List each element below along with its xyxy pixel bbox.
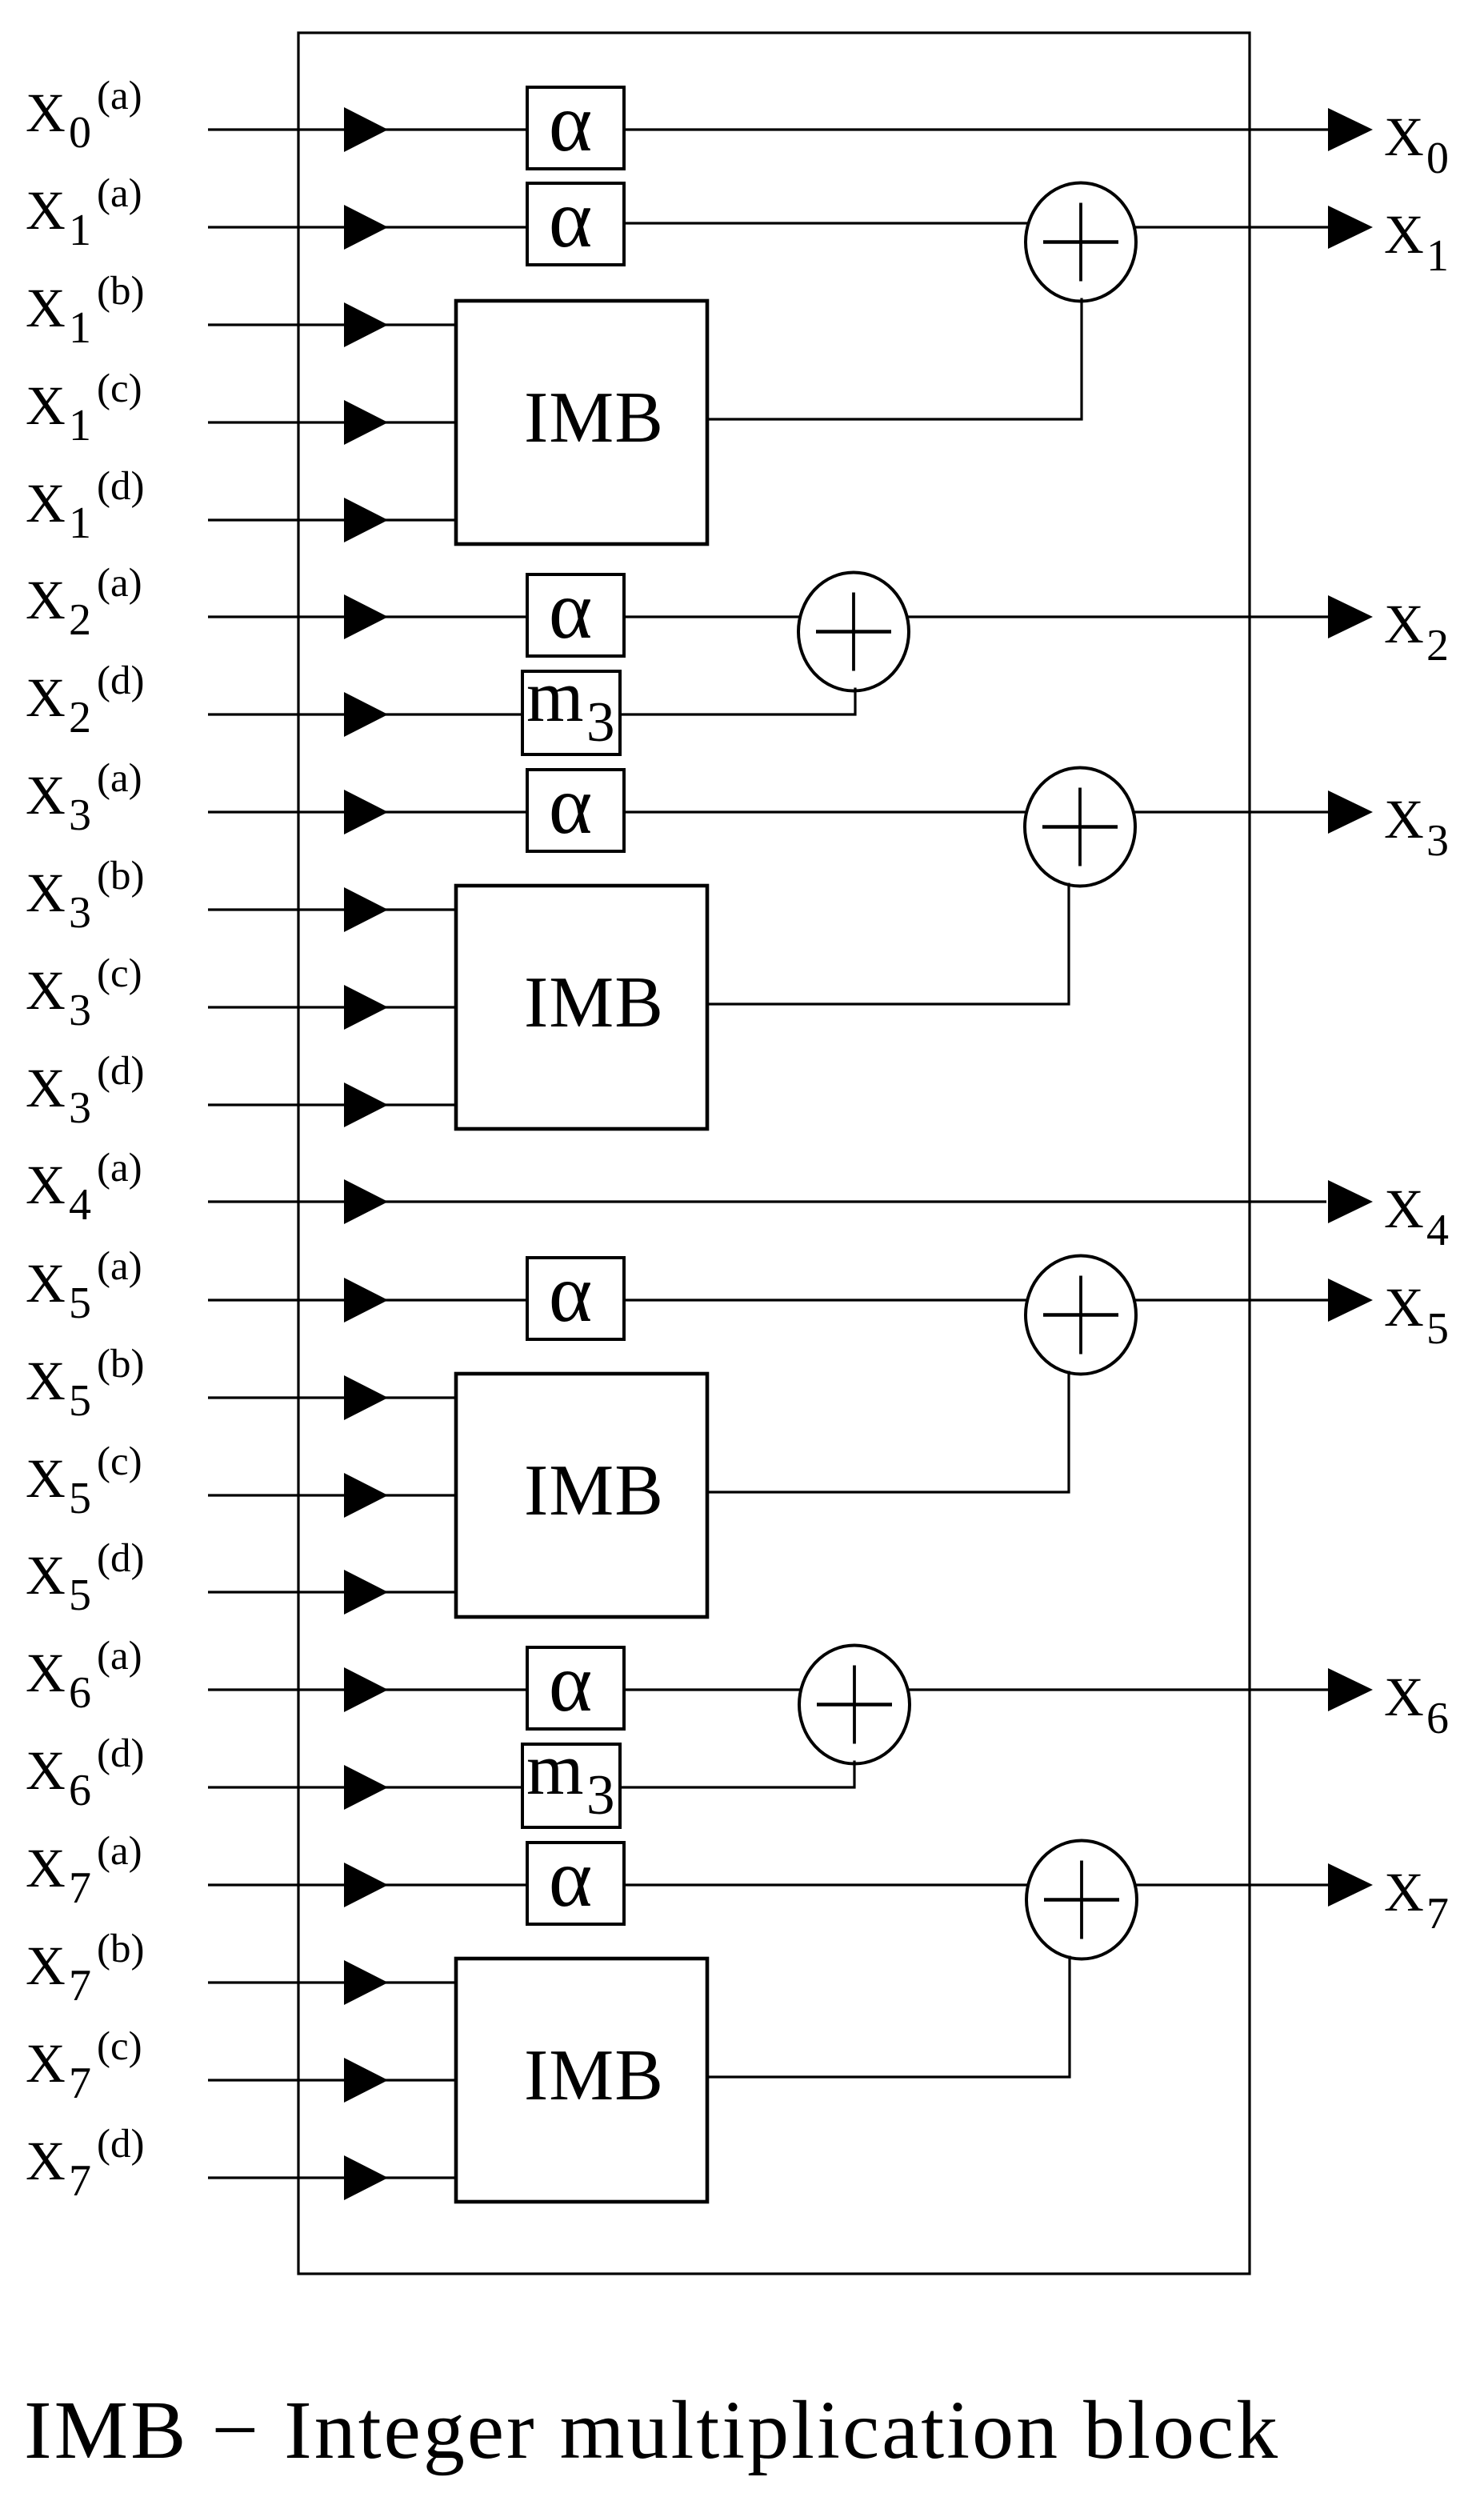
svg-text:(a): (a)	[97, 756, 142, 801]
svg-text:X: X	[26, 1253, 66, 1314]
svg-text:X: X	[1384, 594, 1424, 654]
svg-text:4: 4	[1426, 1206, 1449, 1255]
svg-text:6: 6	[69, 1668, 91, 1718]
arrowhead X1(c) input	[344, 400, 388, 445]
svg-text:(a): (a)	[97, 74, 142, 118]
output arrowhead X0	[1328, 108, 1373, 151]
svg-text:α: α	[549, 77, 593, 169]
svg-text:X: X	[26, 570, 66, 630]
arrowhead X2(d) input	[344, 692, 388, 737]
svg-text:X: X	[26, 375, 66, 436]
svg-text:X: X	[26, 278, 66, 338]
wire X7(a) input	[208, 1883, 529, 1886]
label X5^(c)	[26, 1439, 142, 1523]
svg-text:(a): (a)	[97, 1634, 142, 1679]
svg-text:α: α	[549, 173, 593, 265]
svg-text:X: X	[26, 1545, 66, 1606]
svg-text:(a): (a)	[97, 1244, 142, 1289]
svg-text:X: X	[26, 82, 66, 143]
wire X2(d) input	[208, 713, 524, 715]
svg-text:1: 1	[1426, 231, 1449, 281]
wire IMB4 output to adder X7	[707, 1956, 1070, 2078]
IMB block (center y=2600)	[456, 1959, 707, 2202]
label X5^(a)	[26, 1244, 142, 1328]
output arrowhead X1	[1328, 206, 1373, 249]
svg-text:X: X	[26, 1935, 66, 1996]
output arrowhead X3	[1328, 790, 1373, 834]
svg-text:(b): (b)	[97, 854, 144, 898]
wire X1(c) input	[208, 421, 458, 423]
svg-text:X: X	[26, 862, 66, 923]
wire m3 output to adder X2	[620, 688, 855, 715]
svg-text:5: 5	[69, 1376, 91, 1426]
svg-text:6: 6	[1426, 1694, 1449, 1743]
multiplier alpha (row y=284)	[527, 173, 624, 265]
label X7^(a)	[26, 1829, 142, 1913]
adder (row y=2112)	[799, 1646, 910, 1764]
svg-text:(c): (c)	[97, 366, 142, 411]
svg-text:X: X	[1384, 1667, 1424, 1727]
arrowhead X5(a) input	[344, 1278, 388, 1323]
svg-text:1: 1	[69, 498, 91, 548]
svg-text:(b): (b)	[97, 269, 144, 314]
svg-text:1: 1	[69, 401, 91, 450]
arrowhead X5(d) input	[344, 1570, 388, 1615]
arrowhead X7(c) input	[344, 2058, 388, 2103]
svg-text:(c): (c)	[97, 951, 142, 996]
svg-text:X: X	[26, 1740, 66, 1801]
arrowhead X5(c) input	[344, 1473, 388, 1518]
svg-text:X: X	[26, 765, 66, 826]
svg-text:X: X	[1384, 106, 1424, 167]
wire X5(a) input	[208, 1299, 529, 1301]
wire alpha X0 to output	[624, 128, 1330, 130]
output arrowhead X7	[1328, 1863, 1373, 1907]
wire adder to output (row y=2112)	[907, 1688, 1330, 1691]
svg-text:(a): (a)	[97, 1829, 142, 1874]
arrowhead X6(a) input	[344, 1667, 388, 1712]
multiplier alpha (row y=1625)	[527, 1247, 624, 1339]
svg-text:X: X	[26, 667, 66, 728]
wire alpha to adder (row y=2356)	[624, 1883, 1029, 1886]
wire adder to output (row y=771)	[906, 615, 1330, 618]
adder (row y=1625)	[1026, 1256, 1136, 1375]
svg-text:(d): (d)	[97, 2122, 144, 2167]
svg-text:X: X	[26, 1643, 66, 1703]
svg-text:IMB: IMB	[524, 962, 664, 1042]
arrowhead X1(d) input	[344, 498, 388, 542]
label X4^(a)	[26, 1146, 142, 1230]
wire m3 output to adder X6	[620, 1761, 854, 1788]
svg-text:3: 3	[586, 691, 615, 754]
svg-text:0: 0	[69, 108, 91, 158]
svg-text:3: 3	[69, 1083, 91, 1133]
IMB block (center y=528)	[456, 301, 707, 544]
svg-text:1: 1	[69, 206, 91, 255]
svg-text:3: 3	[69, 888, 91, 938]
svg-text:7: 7	[69, 1863, 91, 1913]
multiplier alpha (row y=2112)	[527, 1637, 624, 1729]
adder (row y=1015)	[1025, 768, 1135, 886]
label X1^(a)	[26, 171, 142, 255]
svg-text:X: X	[26, 180, 66, 241]
svg-text:X: X	[1384, 1862, 1424, 1923]
wire alpha to adder (row y=771)	[624, 615, 801, 618]
svg-text:2: 2	[69, 693, 91, 742]
svg-text:(d): (d)	[97, 1536, 144, 1581]
output label X3	[1384, 789, 1449, 866]
svg-text:7: 7	[69, 1961, 91, 2011]
svg-text:4: 4	[69, 1180, 91, 1230]
arrowhead X5(b) input	[344, 1375, 388, 1420]
arrowhead X3(b) input	[344, 887, 388, 932]
wire adder to output (row y=1625)	[1134, 1299, 1330, 1301]
output label X1	[1384, 204, 1449, 281]
svg-text:m: m	[526, 1728, 584, 1810]
wire X3(b) input	[208, 908, 458, 910]
arrowhead X7(a) input	[344, 1863, 388, 1907]
svg-text:α: α	[549, 759, 593, 851]
label X0^(a)	[26, 74, 142, 158]
svg-text:2: 2	[69, 595, 91, 645]
svg-text:α: α	[549, 1247, 593, 1339]
svg-text:IMB: IMB	[524, 2035, 664, 2115]
output label X4	[1384, 1178, 1449, 1255]
label X7^(b)	[26, 1927, 144, 2011]
arrowhead X4(a) input	[344, 1179, 388, 1224]
wire adder to output (row y=284)	[1134, 226, 1330, 228]
wire IMB2 output to adder X3	[707, 883, 1069, 1005]
output label X7	[1384, 1862, 1449, 1939]
multiplier alpha (row y=2356)	[527, 1832, 624, 1924]
svg-text:(d): (d)	[97, 464, 144, 509]
label X7^(c)	[26, 2024, 142, 2108]
wire adder to output (row y=2356)	[1134, 1883, 1330, 1886]
wire X5(b) input	[208, 1396, 458, 1399]
wire X3(a) input	[208, 810, 529, 813]
output arrowhead X6	[1328, 1668, 1373, 1711]
wire X1(b) input	[208, 323, 458, 326]
svg-text:5: 5	[69, 1474, 91, 1523]
svg-text:3: 3	[69, 790, 91, 840]
svg-text:(a): (a)	[97, 171, 142, 216]
svg-text:5: 5	[1426, 1304, 1449, 1354]
svg-text:2: 2	[1426, 621, 1449, 670]
svg-text:(b): (b)	[97, 1342, 144, 1387]
wire X7(b) input	[208, 1981, 458, 1983]
svg-text:X: X	[1384, 1178, 1424, 1239]
wire X6(d) input	[208, 1786, 524, 1788]
svg-text:α: α	[549, 1832, 593, 1924]
svg-text:X: X	[26, 2033, 66, 2094]
svg-text:X: X	[1384, 789, 1424, 850]
svg-text:X: X	[1384, 1277, 1424, 1338]
wire IMB3 output to adder X5	[707, 1371, 1069, 1493]
wire X4(a) input	[208, 1200, 1326, 1202]
svg-text:3: 3	[69, 986, 91, 1035]
svg-text:(a): (a)	[97, 561, 142, 606]
svg-text:6: 6	[69, 1766, 91, 1815]
output arrowhead X5	[1328, 1279, 1373, 1322]
svg-text:(d): (d)	[97, 1731, 144, 1776]
wire adder to output (row y=1015)	[1133, 810, 1330, 813]
svg-text:0: 0	[1426, 134, 1449, 183]
svg-text:X: X	[26, 960, 66, 1021]
label X2^(d)	[26, 658, 144, 742]
svg-text:X: X	[26, 1448, 66, 1509]
output arrowhead X4	[1328, 1180, 1373, 1223]
svg-text:(d): (d)	[97, 658, 144, 703]
wire alpha to adder (row y=2112)	[624, 1688, 802, 1691]
wire alpha to adder (row y=1625)	[624, 1299, 1028, 1301]
label X3^(d)	[26, 1049, 144, 1133]
svg-text:X: X	[26, 1058, 66, 1118]
wire X6(a) input	[208, 1688, 529, 1691]
label X2^(a)	[26, 561, 142, 645]
label X1^(c)	[26, 366, 142, 450]
label X3^(b)	[26, 854, 144, 938]
svg-text:α: α	[549, 564, 593, 656]
multiplier alpha (row y=162)	[527, 77, 624, 169]
svg-text:α: α	[549, 1637, 593, 1729]
adder (row y=771)	[798, 573, 909, 691]
label X3^(c)	[26, 951, 142, 1035]
wire X0(a) input	[208, 128, 529, 130]
wire IMB1 output to adder X1	[707, 298, 1082, 420]
svg-text:(b): (b)	[97, 1927, 144, 1971]
arrowhead X2(a) input	[344, 594, 388, 639]
arrowhead X6(d) input	[344, 1765, 388, 1810]
arrowhead X3(d) input	[344, 1082, 388, 1127]
multiplier alpha (row y=771)	[527, 564, 624, 656]
wire X5(c) input	[208, 1494, 458, 1496]
arrowhead X7(b) input	[344, 1960, 388, 2005]
multiplier alpha (row y=1015)	[527, 759, 624, 851]
svg-text:X: X	[26, 2131, 66, 2191]
svg-text:IMB: IMB	[524, 377, 664, 458]
arrowhead X1(b) input	[344, 302, 388, 347]
wire alpha to adder (row y=1015)	[624, 810, 1027, 813]
label X1^(b)	[26, 269, 144, 353]
svg-text:X: X	[26, 1838, 66, 1899]
wire X3(d) input	[208, 1103, 458, 1106]
arrowhead X3(a) input	[344, 790, 388, 834]
adder (row y=2356)	[1026, 1841, 1137, 1959]
multiplier m3 (row y=2234)	[522, 1728, 620, 1827]
svg-text:IMB − Integer multiplication b: IMB − Integer multiplication block	[24, 2384, 1280, 2476]
label X5^(d)	[26, 1536, 144, 1620]
label X1^(d)	[26, 464, 144, 548]
svg-text:IMB: IMB	[524, 1450, 664, 1531]
label X7^(d)	[26, 2122, 144, 2206]
svg-text:1: 1	[69, 303, 91, 353]
output label X0	[1384, 106, 1449, 183]
svg-text:X: X	[26, 473, 66, 534]
svg-text:3: 3	[1426, 816, 1449, 866]
svg-text:7: 7	[69, 2059, 91, 2108]
outer block box	[298, 33, 1250, 2274]
svg-text:7: 7	[69, 2156, 91, 2206]
svg-text:(c): (c)	[97, 1439, 142, 1484]
svg-text:5: 5	[69, 1571, 91, 1620]
wire alpha to adder (row y=284)	[624, 222, 1028, 224]
svg-text:(c): (c)	[97, 2024, 142, 2069]
arrowhead X3(c) input	[344, 985, 388, 1030]
svg-text:(a): (a)	[97, 1146, 142, 1190]
wire X3(c) input	[208, 1006, 458, 1008]
svg-text:X: X	[1384, 204, 1424, 265]
wire X7(c) input	[208, 2079, 458, 2081]
svg-text:X: X	[26, 1351, 66, 1411]
svg-text:7: 7	[1426, 1889, 1449, 1939]
arrowhead X1(a) input	[344, 205, 388, 250]
label X6^(d)	[26, 1731, 144, 1815]
wire X5(d) input	[208, 1591, 458, 1593]
output label X2	[1384, 594, 1449, 670]
svg-text:X: X	[26, 1154, 66, 1215]
IMB block (center y=1259)	[456, 886, 707, 1129]
label X5^(b)	[26, 1342, 144, 1426]
adder (row y=284)	[1026, 183, 1136, 302]
arrowhead X0(a) input	[344, 107, 388, 152]
arrowhead X7(d) input	[344, 2155, 388, 2200]
output label X5	[1384, 1277, 1449, 1354]
svg-text:m: m	[526, 655, 584, 737]
label X3^(a)	[26, 756, 142, 840]
svg-text:5: 5	[69, 1279, 91, 1328]
wire X1(a) input	[208, 226, 529, 228]
output arrowhead X2	[1328, 595, 1373, 638]
wire X7(d) input	[208, 2176, 458, 2179]
output label X6	[1384, 1667, 1449, 1743]
multiplier m3 (row y=893)	[522, 655, 620, 754]
IMB block (center y=1869)	[456, 1374, 707, 1617]
wire X1(d) input	[208, 518, 458, 521]
svg-text:3: 3	[586, 1764, 615, 1827]
label X6^(a)	[26, 1634, 142, 1718]
wire X2(a) input	[208, 615, 529, 618]
svg-text:(d): (d)	[97, 1049, 144, 1094]
